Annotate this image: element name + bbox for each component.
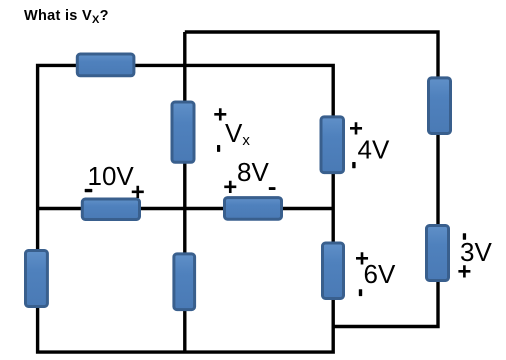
svg-text:+: + bbox=[131, 179, 145, 206]
svg-text:8V: 8V bbox=[237, 157, 269, 187]
svg-text:10V: 10V bbox=[88, 161, 135, 191]
svg-text:+: + bbox=[213, 102, 227, 129]
svg-text:+: + bbox=[349, 116, 363, 143]
svg-text:+: + bbox=[355, 246, 369, 273]
svg-text:+: + bbox=[223, 174, 237, 201]
svg-text:+: + bbox=[457, 259, 471, 286]
